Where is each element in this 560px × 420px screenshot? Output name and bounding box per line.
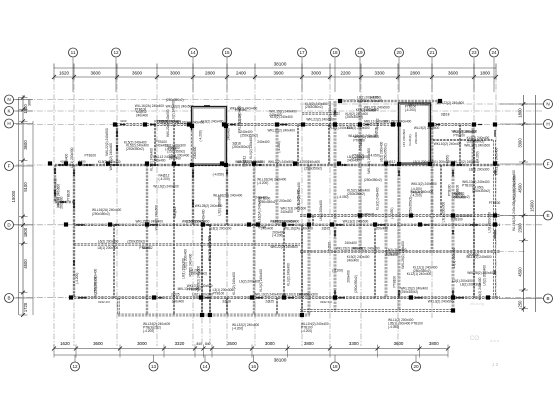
svg-text:KL12(1) 240x400: KL12(1) 240x400 [154,119,179,123]
svg-text:L6(2) 200x400: L6(2) 200x400 [239,280,260,284]
svg-text:PTB100: PTB100 [453,134,465,138]
svg-text:WLL9(2) 240x500: WLL9(2) 240x500 [155,205,159,231]
svg-text:2@25: 2@25 [328,242,332,251]
svg-text:WKL22(2) 240x500: WKL22(2) 240x500 [270,245,298,249]
svg-text:KL9(2) 240x400: KL9(2) 240x400 [54,178,58,201]
svg-text:PTB100: PTB100 [393,276,397,288]
svg-text:a a a: a a a [490,338,500,343]
svg-text:250: 250 [517,300,522,308]
svg-text:240x400: 240x400 [308,160,320,164]
svg-text:WKL10(2) 240x400: WKL10(2) 240x400 [268,128,296,132]
svg-text:(250x350x2): (250x350x2) [409,197,413,215]
svg-text:(250x350x2): (250x350x2) [364,178,382,182]
svg-text:F: F [8,164,11,169]
svg-text:17: 17 [299,50,305,55]
svg-text:L6(2) 200x400: L6(2) 200x400 [483,265,487,286]
svg-text:L8(1) 200x300: L8(1) 200x300 [430,160,451,164]
svg-text:(250x350x2): (250x350x2) [354,275,358,293]
svg-text:zhulong: zhulong [470,301,484,306]
svg-text:240x400: 240x400 [136,114,148,118]
svg-text:(-4.200): (-4.200) [405,108,416,112]
svg-text:240x400: 240x400 [347,258,359,262]
svg-text:240x400: 240x400 [153,159,165,163]
svg-text:WKL10(2) 240x400: WKL10(2) 240x400 [434,142,462,146]
svg-text:(-4.200): (-4.200) [332,269,343,273]
svg-text:240x400: 240x400 [227,128,231,140]
svg-text:240x400: 240x400 [370,99,382,103]
svg-text:3600: 3600 [90,71,101,76]
svg-text:KL9(2) 240x400: KL9(2) 240x400 [376,187,380,210]
svg-text:240x400: 240x400 [385,253,397,257]
svg-text:3000: 3000 [170,71,181,76]
svg-text:PTB100: PTB100 [451,218,463,222]
svg-text:WKL28(2) 240x400: WKL28(2) 240x400 [467,271,495,275]
svg-text:L3(1) 200x300: L3(1) 200x300 [488,212,492,233]
svg-text:WLL16(2A) 240x400: WLL16(2A) 240x400 [258,197,262,226]
svg-text:KL9(2) 240x400: KL9(2) 240x400 [259,269,263,292]
svg-text:4100: 4100 [60,159,67,163]
svg-text:4500: 4500 [517,267,522,277]
svg-text:KL9(2) 240x400: KL9(2) 240x400 [232,272,236,295]
svg-text:2@25: 2@25 [171,293,180,297]
svg-text:PTB100: PTB100 [213,291,225,295]
svg-text:240x400: 240x400 [414,132,418,144]
svg-text:KL9(2) 240x400: KL9(2) 240x400 [201,119,224,123]
svg-text:240x400: 240x400 [172,299,184,303]
svg-text:240x400: 240x400 [281,210,293,214]
svg-text:240x400: 240x400 [364,109,376,113]
svg-text:(250x350x2): (250x350x2) [467,140,485,144]
svg-text:240x400: 240x400 [411,191,423,195]
svg-text:N: N [7,97,10,102]
svg-text:3000: 3000 [311,71,322,76]
svg-text:840: 840 [205,342,211,346]
svg-text:B: B [7,296,10,301]
svg-text:240x400: 240x400 [345,241,357,245]
svg-text:(-4.200): (-4.200) [257,181,268,185]
svg-text:15: 15 [224,50,230,55]
svg-text:KL9(2) 240x400: KL9(2) 240x400 [98,160,121,164]
svg-text:WKL3(2) 240x500: WKL3(2) 240x500 [411,182,437,186]
svg-text:(-4.200): (-4.200) [143,329,154,333]
svg-text:H: H [7,121,10,126]
svg-text:(250x350x2): (250x350x2) [167,150,185,154]
svg-text:WKL3(2) 240x500: WKL3(2) 240x500 [343,220,369,224]
svg-text:3300: 3300 [349,341,359,346]
svg-text:12: 12 [113,50,119,55]
svg-text:(-4.050): (-4.050) [238,114,242,125]
svg-text:1700: 1700 [160,119,167,123]
svg-text:KL9(2) 240x400: KL9(2) 240x400 [297,182,301,205]
svg-text:2300: 2300 [517,223,522,233]
svg-text:13: 13 [151,364,157,369]
svg-text:(-4.200): (-4.200) [301,329,312,333]
svg-text:3@18: 3@18 [441,112,450,116]
svg-text:L8(1) 200x300: L8(1) 200x300 [331,126,352,130]
svg-text:1720: 1720 [23,302,28,312]
svg-text:(250x350x2): (250x350x2) [186,220,204,224]
svg-text:N4@12: N4@12 [385,160,396,164]
svg-text:PTB100: PTB100 [489,201,501,205]
svg-text:(250x350x2): (250x350x2) [401,290,419,294]
svg-text:L8(1) 200x300: L8(1) 200x300 [70,147,74,168]
svg-text:15000: 15000 [11,190,16,202]
svg-text:(-4.050): (-4.050) [390,208,394,219]
svg-text:5100: 5100 [23,182,28,192]
svg-text:1620: 1620 [60,341,70,346]
svg-text:(-4.200): (-4.200) [232,327,243,331]
svg-text:WKL22(2) 240x500: WKL22(2) 240x500 [512,175,516,203]
svg-text:(250x350x2): (250x350x2) [357,212,375,216]
svg-text:2800: 2800 [205,71,216,76]
svg-text:L8(1) 200x300: L8(1) 200x300 [192,293,213,297]
svg-text:KL30(1): KL30(1) [408,134,412,145]
svg-text:1800: 1800 [23,227,28,237]
svg-text:(250x350x2): (250x350x2) [126,147,144,151]
svg-text:24: 24 [491,50,497,55]
svg-text:11: 11 [71,50,76,55]
svg-text:3300: 3300 [374,71,385,76]
svg-text:200x400: 200x400 [347,270,351,282]
svg-text:2400: 2400 [236,71,247,76]
svg-text:L8(1) 200x300: L8(1) 200x300 [469,167,490,171]
svg-text:N4@12: N4@12 [173,207,177,218]
svg-text:240x400: 240x400 [257,140,269,144]
svg-text:3192 2/3: 3192 2/3 [320,300,332,304]
svg-text:(250x350x2): (250x350x2) [127,239,145,243]
svg-text:2@25: 2@25 [322,226,331,230]
svg-text:CO: CO [470,336,479,342]
svg-text:PTB100: PTB100 [139,246,151,250]
svg-text:200x400: 200x400 [467,253,479,257]
svg-text:WKL15(2) 240x400: WKL15(2) 240x400 [136,220,164,224]
svg-text:L8(1) 200x300: L8(1) 200x300 [98,246,119,250]
svg-text:N: N [546,102,549,107]
svg-text:240x400: 240x400 [357,99,369,103]
svg-text:WKL22(2) 240x500: WKL22(2) 240x500 [166,105,194,109]
svg-text:MKL13 240x600: MKL13 240x600 [364,119,387,123]
svg-text:(250x350x2): (250x350x2) [413,269,431,273]
svg-text:L3(1) 200x300: L3(1) 200x300 [442,202,446,223]
svg-text:18: 18 [332,364,338,369]
svg-text:(250x350x2): (250x350x2) [452,195,470,199]
svg-text:4100: 4100 [120,119,127,123]
svg-text:(-4.200): (-4.200) [75,273,79,284]
svg-text:KL9(2) 240x400: KL9(2) 240x400 [478,277,482,300]
svg-text:(-4.200): (-4.200) [277,141,281,152]
svg-text:WLL16(2A) 240x400: WLL16(2A) 240x400 [512,201,516,230]
svg-text:WKL28(2) 240x400: WKL28(2) 240x400 [401,241,405,269]
svg-text:L3(1) 200x300: L3(1) 200x300 [452,247,456,268]
svg-text:1620: 1620 [59,71,70,76]
svg-text:3600: 3600 [132,71,143,76]
svg-text:2@25: 2@25 [375,127,379,136]
svg-text:14: 14 [202,364,208,369]
svg-text:(-4.050): (-4.050) [213,173,224,177]
svg-text:(250x350x2): (250x350x2) [347,192,365,196]
svg-text:4500: 4500 [517,183,522,193]
svg-text:(-4.200): (-4.200) [159,177,170,181]
svg-text:240x400: 240x400 [193,146,197,158]
svg-text:(-4.050): (-4.050) [388,325,399,329]
svg-text:38100: 38100 [274,62,287,67]
svg-text:MKL13 240x600: MKL13 240x600 [408,103,431,107]
svg-text:3500: 3500 [227,341,237,346]
svg-text:3900: 3900 [273,71,284,76]
svg-text:L8(1) 200x300: L8(1) 200x300 [297,293,318,297]
svg-text:PTB100: PTB100 [67,190,71,202]
svg-text:1800: 1800 [517,108,522,118]
svg-text:240x400: 240x400 [269,113,281,117]
svg-text:WKL28(2) 240x400: WKL28(2) 240x400 [384,119,412,123]
svg-text:PTB100: PTB100 [359,139,363,151]
svg-text:WKL3(2) 240x500: WKL3(2) 240x500 [268,160,294,164]
svg-text:20: 20 [396,50,402,55]
svg-text:(250x350x2): (250x350x2) [94,277,98,295]
svg-text:LT2 240x500: LT2 240x500 [402,129,406,147]
svg-text:WLL16(2A) 240x400: WLL16(2A) 240x400 [270,220,299,224]
svg-text:WKL28(2) 240x400: WKL28(2) 240x400 [352,246,380,250]
svg-text:PTB100: PTB100 [456,185,460,197]
svg-text:16: 16 [251,364,257,369]
svg-text:38100: 38100 [274,357,287,362]
svg-text:3600: 3600 [93,341,103,346]
svg-text:(-4.200): (-4.200) [199,130,203,141]
svg-text:2200: 2200 [340,71,351,76]
svg-text:WLL16(2A) 240x400: WLL16(2A) 240x400 [284,226,313,230]
svg-text:WKL22(2) 240x500: WKL22(2) 240x500 [437,101,465,105]
svg-text:(-4.050): (-4.050) [369,154,380,158]
svg-text:KL5(2) 240x400: KL5(2) 240x400 [124,141,147,145]
svg-text:L6(2) 200x400: L6(2) 200x400 [98,239,119,243]
svg-text:2@25: 2@25 [265,299,274,303]
svg-text:WKL22(2) 240x500: WKL22(2) 240x500 [238,160,266,164]
svg-text:2800: 2800 [410,71,421,76]
svg-text:H: H [546,122,549,127]
svg-text:L6(2) 200x400: L6(2) 200x400 [183,249,187,270]
svg-text:(250x350x2): (250x350x2) [472,189,490,193]
svg-text:200x400: 200x400 [279,199,291,203]
svg-text:WKL3(2) 240x500: WKL3(2) 240x500 [464,144,490,148]
svg-text:(250x350x2): (250x350x2) [305,105,323,109]
svg-text:WKL10(2) 240x400: WKL10(2) 240x400 [109,143,113,171]
svg-text:B: B [546,296,549,301]
svg-text:WKL10(2) 240x400: WKL10(2) 240x400 [254,293,282,297]
svg-text:WLL9(2) 240x500: WLL9(2) 240x500 [414,126,440,130]
svg-text:14: 14 [190,50,196,55]
svg-text:WKL3(2) 240x500: WKL3(2) 240x500 [367,148,371,174]
svg-text:E: E [546,213,549,218]
svg-text:3000: 3000 [137,341,147,346]
svg-text:(250x350x2): (250x350x2) [92,212,110,216]
svg-text:(250x350x2): (250x350x2) [304,167,322,171]
svg-text:4500: 4500 [23,259,28,269]
svg-text:1 2: 1 2 [492,362,499,367]
svg-text:@400: @400 [258,225,266,229]
svg-text:3192 2/3: 3192 2/3 [98,300,110,304]
svg-text:3600: 3600 [394,341,404,346]
svg-text:WKL10(2) 240x400: WKL10(2) 240x400 [328,101,332,129]
svg-text:PTB100: PTB100 [353,157,365,161]
svg-text:21: 21 [429,50,435,55]
svg-text:15000: 15000 [529,200,534,212]
svg-text:(250x350x2): (250x350x2) [232,145,250,149]
svg-text:KL9(2) 240x400: KL9(2) 240x400 [189,254,193,277]
svg-text:F: F [547,162,550,167]
svg-text:WKL10(2) 240x400: WKL10(2) 240x400 [451,160,479,164]
svg-text:WKL3(2) 240x500: WKL3(2) 240x500 [428,299,454,303]
svg-text:(250x350x2): (250x350x2) [383,143,387,161]
svg-text:200x400: 200x400 [376,226,388,230]
svg-text:19: 19 [357,50,363,55]
svg-text:18: 18 [332,50,338,55]
svg-text:840: 840 [197,342,203,346]
svg-text:3@18: 3@18 [222,299,231,303]
svg-text:300: 300 [28,100,32,106]
svg-text:3800: 3800 [429,341,439,346]
svg-text:WLL9(2) 240x500: WLL9(2) 240x500 [208,236,212,262]
svg-text:PTB100: PTB100 [448,184,452,196]
svg-text:WLL9(2) 240x500: WLL9(2) 240x500 [153,185,179,189]
svg-text:L3(1) 200x300: L3(1) 200x300 [218,195,222,216]
svg-text:1700: 1700 [79,159,86,163]
svg-text:3600: 3600 [23,140,28,150]
svg-text:20: 20 [413,364,419,369]
svg-text:(250x350x2): (250x350x2) [345,115,363,119]
svg-text:KL9(2) 240x400: KL9(2) 240x400 [286,263,290,286]
svg-text:L6(2) 200x400: L6(2) 200x400 [319,200,323,221]
svg-text:PTB100: PTB100 [85,154,97,158]
svg-text:12: 12 [72,364,78,369]
svg-text:240x400: 240x400 [155,143,167,147]
svg-text:1800: 1800 [480,71,491,76]
svg-text:3320: 3320 [175,341,185,346]
svg-text:(-4.050): (-4.050) [337,195,348,199]
svg-text:3000: 3000 [265,341,275,346]
svg-text:3800: 3800 [304,341,314,346]
svg-text:KL5(2) 240x400: KL5(2) 240x400 [150,148,154,171]
svg-text:WKL3(2) 240x500: WKL3(2) 240x500 [196,266,200,292]
svg-text:KL9(2) 240x400: KL9(2) 240x400 [249,136,253,159]
svg-text:23: 23 [471,50,477,55]
svg-text:(-4.200): (-4.200) [272,234,283,238]
svg-text:3600: 3600 [448,71,459,76]
svg-text:L8(1) 200x300: L8(1) 200x300 [211,226,232,230]
svg-text:3300: 3300 [517,138,522,148]
